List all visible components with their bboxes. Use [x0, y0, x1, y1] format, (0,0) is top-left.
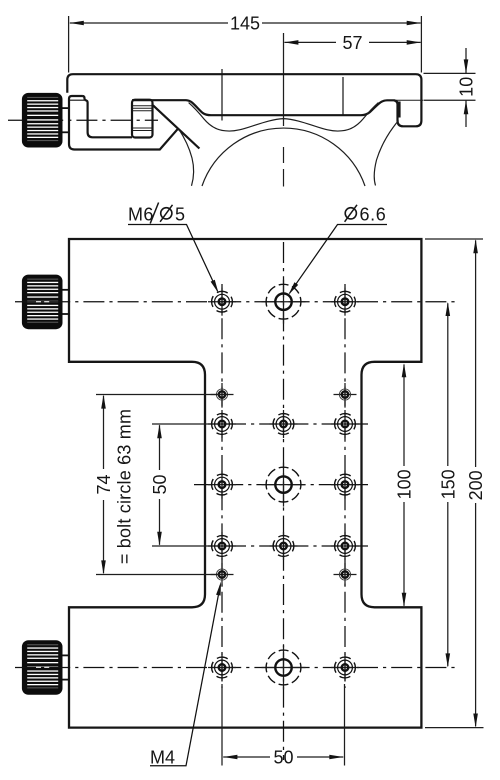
clamp knob upper — [22, 275, 70, 330]
svg-text:M4: M4 — [150, 748, 175, 768]
clamp screw axis centre line — [8, 119, 158, 121]
dimension 50 left line — [159, 425, 161, 470]
dimension line 200 — [475, 240, 477, 467]
dimension line 150 — [447, 303, 449, 466]
clamp wedge face diagonal — [153, 105, 199, 148]
plate outline — [69, 239, 421, 728]
clamp jaw pocket profile — [83, 96, 133, 137]
M4 hole lower right — [334, 563, 357, 586]
row D centre line — [152, 545, 228, 547]
M6 hole row C right — [331, 471, 359, 499]
column centre line left — [221, 284, 223, 688]
dimension line 74 — [103, 396, 105, 469]
leader o6.6 — [290, 225, 388, 294]
M4 hole upper right — [334, 383, 357, 406]
M6 hole row A right — [331, 288, 359, 316]
M6 hole row B middle — [270, 410, 298, 438]
svg-text:200: 200 — [466, 470, 486, 500]
clamp jaw outline — [69, 96, 178, 150]
leader M6/o5 — [128, 225, 218, 292]
dimension 50 bottom extension lines — [221, 684, 223, 766]
top plate outline — [67, 74, 421, 126]
svg-text:= bolt circle 63 mm: = bolt circle 63 mm — [115, 409, 135, 564]
row B centre line — [152, 423, 228, 425]
dimension 145/57 extension line right — [420, 16, 422, 73]
svg-text:74: 74 — [94, 474, 114, 494]
dimension line 50 bottom — [223, 756, 270, 758]
row C centre line — [194, 484, 372, 486]
plate bottom edge segment in jaw notch — [70, 99, 84, 101]
M6 hole row A left — [208, 288, 236, 316]
M4 hole lower left — [211, 563, 234, 586]
M6 hole row C left — [208, 471, 236, 499]
hook shadow bar — [398, 102, 401, 118]
M6 hole row D right — [331, 532, 359, 560]
dimension 200 extension lines — [425, 238, 483, 240]
dimension 145 extension line left — [68, 16, 70, 73]
svg-text:M6: M6 — [128, 205, 154, 225]
M6 hole row B left — [208, 410, 236, 438]
svg-text:50: 50 — [150, 474, 170, 494]
M4 hole upper left — [211, 383, 234, 406]
svg-text:10: 10 — [456, 77, 476, 97]
thread hatch lines — [133, 106, 152, 131]
svg-text:57: 57 — [342, 33, 362, 53]
left leg outer edge — [179, 129, 194, 186]
dimension 10 extension lines — [424, 72, 476, 74]
hole column line right — [342, 77, 344, 115]
threaded bushing block — [132, 100, 153, 138]
leader M4 — [150, 585, 220, 766]
M6 hole row D left — [208, 532, 236, 560]
svg-text:100: 100 — [395, 469, 415, 499]
label o6.6 — [345, 208, 356, 219]
dimension line 57 — [284, 41, 336, 43]
M6 hole row E left — [208, 654, 236, 682]
body bottom edge with shoulders — [132, 100, 398, 115]
rail circular profile arc — [202, 128, 365, 186]
column centre line middle — [283, 242, 285, 760]
6.6 hole row A — [262, 280, 306, 324]
column centre line right — [344, 284, 346, 688]
svg-text:6.6: 6.6 — [360, 205, 387, 225]
row E centre line — [15, 667, 456, 669]
svg-text:5: 5 — [175, 205, 185, 225]
clamp knob lower — [22, 640, 70, 695]
row A centre line — [15, 301, 456, 303]
dimension 74 extension lines — [96, 394, 228, 396]
dimension line 145 — [70, 22, 228, 24]
clamp knob (top view) — [22, 93, 70, 148]
dimension line 100 — [403, 365, 405, 467]
hole column line left — [221, 69, 223, 121]
svg-text:50: 50 — [273, 747, 293, 767]
6.6 hole row E — [262, 646, 306, 690]
M6 hole row D middle — [270, 532, 298, 560]
carrier web curve — [189, 103, 379, 131]
svg-text:150: 150 — [438, 469, 458, 499]
right leg outer edge — [374, 121, 398, 186]
M6 hole row B right — [331, 410, 359, 438]
M6 hole row E right — [331, 654, 359, 682]
dimension line 10 (vertical, arrows outside) — [465, 48, 467, 73]
6.6 hole row C — [262, 463, 306, 507]
centre line of rail (node axis) — [283, 33, 285, 126]
plate seam line right — [396, 99, 423, 101]
svg-text:145: 145 — [230, 13, 260, 33]
